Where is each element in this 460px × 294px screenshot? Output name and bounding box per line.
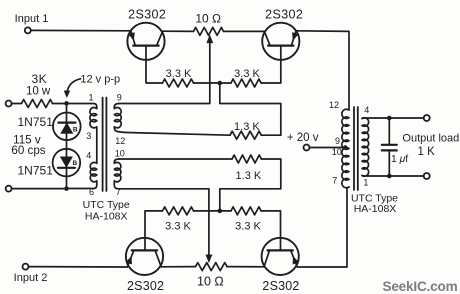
T2 center tap junction bbox=[343, 145, 348, 150]
transistor Q4 collector lead bbox=[264, 250, 270, 266]
svg-text:3K: 3K bbox=[31, 72, 47, 86]
capacitor C1 top lead bbox=[388, 118, 390, 144]
wire pot R5 right to Q2 collector bbox=[224, 30, 265, 32]
pot R8 wiper arrow bbox=[206, 255, 212, 263]
transistor Q3 collector lead bbox=[155, 250, 161, 266]
transistor Q1 emitter arrow bbox=[129, 33, 135, 40]
zener diode D1 cathode bar bbox=[58, 121, 75, 123]
wire Q1 base down bbox=[146, 46, 163, 83]
output terminal top bbox=[424, 115, 430, 121]
svg-text:10 Ω: 10 Ω bbox=[197, 275, 224, 289]
wire T1 pin 10 to R4 bbox=[119, 158, 232, 160]
svg-text:1 μf: 1 μf bbox=[391, 154, 408, 165]
wire Q1 collector to pot R5 left bbox=[163, 30, 194, 32]
resistor R1 3.3K bbox=[163, 79, 194, 87]
svg-text:4: 4 bbox=[86, 150, 91, 160]
transistor Q2 collector lead bbox=[264, 31, 270, 45]
svg-text:9: 9 bbox=[335, 136, 340, 146]
T1 primary winding (pins 1-3-4-6) bbox=[67, 104, 97, 189]
svg-text:1 K: 1 K bbox=[418, 146, 436, 158]
svg-text:HA-108X: HA-108X bbox=[85, 211, 128, 223]
svg-text:3.3 K: 3.3 K bbox=[234, 68, 260, 80]
svg-text:12: 12 bbox=[115, 136, 125, 146]
transistor Q1 emitter lead bbox=[131, 31, 136, 46]
zener diode D1 triangle bbox=[61, 123, 73, 133]
wire +20v to T2 center tap bbox=[310, 147, 345, 149]
node A junction bbox=[218, 81, 223, 86]
svg-text:10: 10 bbox=[115, 148, 125, 158]
wire Q3 base up bbox=[145, 211, 163, 251]
transistor Q2 emitter lead bbox=[291, 31, 296, 46]
transistor Q2 base bar bbox=[268, 44, 293, 46]
T2 core bbox=[353, 107, 355, 190]
transistor Q4 emitter arrow bbox=[293, 257, 298, 264]
supply terminal +20v bbox=[304, 145, 310, 151]
input terminal J1 (Input 1) bbox=[25, 27, 31, 33]
transistor Q1 base bar bbox=[133, 44, 158, 46]
T2 secondary winding (pins 4-1) bbox=[362, 118, 369, 176]
svg-text:HA-108X: HA-108X bbox=[354, 203, 397, 215]
svg-text:2S302: 2S302 bbox=[127, 279, 164, 293]
node F junction bbox=[387, 174, 392, 179]
transistor Q3 2S302 body bbox=[126, 238, 163, 275]
svg-text:Input 1: Input 1 bbox=[15, 13, 49, 25]
capacitor C1 bottom lead bbox=[388, 151, 390, 176]
transistor Q1 2S302 body bbox=[127, 23, 164, 60]
node B junction bbox=[218, 209, 223, 214]
wire Q4 emitter to T2 pin 7 bbox=[297, 187, 349, 267]
wire T2 pin 1 to output bottom bbox=[362, 175, 424, 178]
svg-text:SeekIC.com: SeekIC.com bbox=[382, 279, 457, 294]
svg-text:7: 7 bbox=[332, 176, 337, 186]
resistor R6 3.3K bbox=[163, 207, 194, 215]
wire R6 to node B bbox=[194, 210, 232, 212]
svg-text:B: B bbox=[72, 160, 77, 167]
potentiometer R8 10 ohm element bbox=[196, 263, 228, 271]
svg-text:1N751: 1N751 bbox=[18, 163, 54, 177]
node D junction bbox=[64, 186, 69, 191]
wire J2 to Q3 emitter bbox=[29, 266, 127, 268]
output terminal bottom bbox=[424, 173, 430, 179]
wire T1 pin 9 to pot R5 wiper bbox=[119, 39, 210, 103]
svg-text:12: 12 bbox=[329, 100, 339, 110]
svg-text:12 v p-p: 12 v p-p bbox=[80, 74, 120, 86]
resistor R9 3K 10w bbox=[12, 100, 53, 108]
transistor Q4 emitter lead bbox=[291, 250, 297, 267]
svg-text:3.3 K: 3.3 K bbox=[165, 220, 191, 232]
svg-text:Output load: Output load bbox=[402, 133, 459, 145]
T1 core bbox=[102, 98, 104, 192]
svg-text:1: 1 bbox=[88, 93, 93, 103]
wire R3 right lead bbox=[261, 134, 281, 136]
resistor R4 1.3K bbox=[232, 155, 261, 163]
zener diode D2 triangle bbox=[60, 157, 72, 167]
wire R4 to node B bbox=[220, 159, 281, 211]
svg-text:B: B bbox=[73, 126, 78, 133]
svg-text:2S302: 2S302 bbox=[265, 7, 303, 21]
svg-text:10 w: 10 w bbox=[26, 85, 51, 97]
AC terminal J4 bbox=[6, 186, 12, 192]
node C junction bbox=[64, 101, 69, 106]
potentiometer R5 10 ohm element bbox=[194, 27, 224, 35]
wire R1 to node A bbox=[194, 82, 232, 84]
svg-text:10: 10 bbox=[332, 147, 342, 157]
svg-text:UTC Type: UTC Type bbox=[83, 199, 130, 211]
AC terminal J3 bbox=[6, 101, 12, 107]
pot R5 wiper arrow bbox=[207, 35, 213, 43]
zener diode D1 1N751 body bbox=[53, 113, 81, 141]
capacitor C1 top plate bbox=[382, 144, 397, 146]
svg-text:9: 9 bbox=[117, 93, 122, 103]
capacitor C1 bottom plate bbox=[382, 149, 397, 151]
svg-text:1N751: 1N751 bbox=[18, 115, 54, 129]
wire T1 pin 12 to R3 bbox=[124, 132, 230, 135]
T1 secondary winding bottom (pins 10-7) bbox=[114, 159, 121, 189]
svg-text:1.3 K: 1.3 K bbox=[234, 121, 260, 133]
svg-text:6: 6 bbox=[89, 187, 94, 197]
transistor Q4 base bar bbox=[268, 249, 293, 251]
wire Q3 collector to pot R8 bbox=[161, 266, 195, 268]
transistor Q4 2S302 body bbox=[262, 238, 299, 275]
transistor Q2 2S302 body bbox=[262, 23, 299, 60]
resistor R2 3.3K bbox=[231, 79, 261, 87]
resistor R7 3.3K bbox=[231, 207, 261, 215]
svg-text:2S302: 2S302 bbox=[262, 279, 299, 293]
transistor Q3 base bar bbox=[132, 249, 157, 251]
T1 secondary winding top (pins 9-12) bbox=[114, 104, 124, 133]
transistor Q3 emitter lead bbox=[127, 250, 134, 267]
svg-text:3.3 K: 3.3 K bbox=[235, 220, 261, 232]
wire R2 to Q2 base bbox=[261, 46, 281, 83]
transistor Q1 collector lead bbox=[157, 31, 163, 45]
svg-text:+ 20 v: + 20 v bbox=[287, 132, 319, 144]
node E junction bbox=[387, 116, 392, 121]
transistor Q2 emitter arrow bbox=[292, 33, 298, 40]
wire J4 to T1 pin 6 bbox=[12, 188, 67, 190]
svg-text:4: 4 bbox=[364, 105, 369, 115]
svg-text:1: 1 bbox=[363, 178, 368, 188]
wire pot R8 right to Q4 collector bbox=[227, 266, 264, 268]
wire Q2 emitter to T2 pin 12 bbox=[296, 31, 349, 110]
wire T1 pin 7 to pot R8 wiper bbox=[118, 189, 209, 258]
svg-text:Input 2: Input 2 bbox=[14, 272, 48, 284]
resistor R3 1.3K bbox=[230, 131, 261, 139]
input terminal J2 (Input 2) bbox=[23, 264, 29, 270]
T2 primary winding (pins 12-9-10-7) bbox=[342, 109, 349, 188]
zener diode D2 1N751 body bbox=[53, 149, 81, 177]
svg-text:3: 3 bbox=[86, 131, 91, 141]
svg-text:3.3 K: 3.3 K bbox=[166, 68, 192, 80]
transistor Q3 emitter arrow bbox=[126, 257, 131, 264]
svg-text:60 cps: 60 cps bbox=[11, 144, 45, 157]
svg-text:1.3 K: 1.3 K bbox=[236, 170, 262, 182]
wire J1 to Q1 emitter bbox=[31, 29, 131, 31]
wire T2 pin 4 to output top bbox=[362, 117, 424, 120]
wire R9 to node C bbox=[53, 103, 68, 105]
wire R7 to Q4 base bbox=[261, 211, 281, 251]
wire node A to R3 right end bbox=[220, 83, 281, 135]
zener diode D2 anode bar bbox=[58, 167, 75, 169]
zener diode column wire bbox=[66, 103, 68, 188]
svg-text:10 Ω: 10 Ω bbox=[195, 12, 221, 26]
svg-text:2S302: 2S302 bbox=[128, 7, 166, 21]
leader arrow 12 v p-p bbox=[67, 79, 81, 93]
svg-text:7: 7 bbox=[116, 187, 121, 197]
